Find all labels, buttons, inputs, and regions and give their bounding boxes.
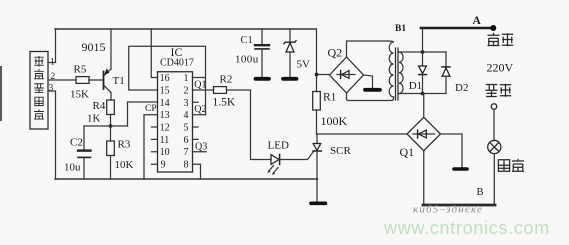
label C1 xyxy=(241,35,253,46)
wire: Q2 bottom to transformer primary bottom xyxy=(347,93,394,101)
label A xyxy=(473,15,482,27)
wire: Q1 bottom to B line xyxy=(423,151,425,205)
wire: zener drop from rail xyxy=(289,29,291,42)
svg-text:Q1: Q1 xyxy=(194,80,206,91)
wire: IR pin3 stub and drop to ground rail xyxy=(48,91,56,179)
label R2 xyxy=(220,74,233,86)
wire: secondary top rail to D2 xyxy=(399,51,446,53)
label B1 xyxy=(395,24,406,34)
wire: A line drop to secondary top xyxy=(422,28,424,52)
wire: top rail right end down (R1 branch) xyxy=(316,29,318,92)
wire: secondary bottom rail to D2 xyxy=(399,93,446,95)
node: R1 top / Q2 tap xyxy=(315,73,319,77)
svg-text:100u: 100u xyxy=(235,54,259,66)
wire: C2 to ground rail xyxy=(83,158,85,179)
IR receiver label char 头 xyxy=(35,110,44,119)
pin number 3 (IR box) xyxy=(49,84,54,94)
svg-text:100K: 100K xyxy=(321,114,348,128)
diode D2 xyxy=(442,52,450,94)
label R5 xyxy=(74,64,87,76)
svg-text:9: 9 xyxy=(161,160,166,171)
svg-text:B: B xyxy=(477,187,484,198)
wire: IC pin2 out to R2 xyxy=(193,89,214,91)
wire: R2 to LED drop xyxy=(227,90,272,160)
IR receiver label char 收 xyxy=(35,97,43,105)
wire: IR pin1 stub and riser to rail xyxy=(48,29,56,63)
IC pin numbers right column xyxy=(184,73,189,171)
label Q1 (bridge) xyxy=(400,145,415,159)
value 10K xyxy=(115,159,134,171)
svg-text:1.5K: 1.5K xyxy=(213,97,236,109)
node: A terminal dot xyxy=(490,25,496,31)
label 负载 load chars xyxy=(498,159,524,172)
label CD4017 xyxy=(160,58,194,69)
wire: LED to SCR gate xyxy=(280,152,314,160)
zener diode DW 5V xyxy=(284,41,296,78)
bridge rectifier Q1 xyxy=(407,117,441,151)
wire: IC pin4 to output bus xyxy=(193,114,206,116)
pin number 2 (IR box) xyxy=(51,72,56,82)
thyristor SCR xyxy=(313,134,321,179)
diode D1 xyxy=(419,52,427,94)
svg-text:7: 7 xyxy=(184,147,189,158)
wire: +V top rail xyxy=(55,28,316,30)
value 1K xyxy=(87,113,101,125)
svg-text:14: 14 xyxy=(160,98,170,109)
IC left pin stubs 12,11,10,9 xyxy=(152,127,158,164)
svg-text:12: 12 xyxy=(160,123,170,134)
svg-text:B1: B1 xyxy=(395,24,406,34)
svg-text:R3: R3 xyxy=(118,139,131,151)
svg-text:1: 1 xyxy=(184,73,189,84)
svg-text:5: 5 xyxy=(184,123,189,134)
value 5V xyxy=(297,59,311,71)
svg-text:1: 1 xyxy=(50,58,55,68)
label 9015 xyxy=(82,40,106,54)
IR receiver box 红外接收头 xyxy=(30,52,48,130)
svg-text:R2: R2 xyxy=(220,74,233,86)
label T1 xyxy=(113,75,125,87)
svg-text:R4: R4 xyxy=(93,100,106,112)
svg-text:Q2: Q2 xyxy=(328,46,343,60)
label B xyxy=(477,187,484,198)
label R3 xyxy=(118,139,131,151)
svg-text:D2: D2 xyxy=(455,82,468,94)
resistor R3 xyxy=(107,141,115,156)
wire: IC pin1 to output bus xyxy=(193,77,206,79)
svg-text:10u: 10u xyxy=(64,162,81,174)
label Q3 (IC output) xyxy=(195,142,207,153)
svg-text:4: 4 xyxy=(184,110,189,121)
resistor R4 xyxy=(107,100,115,115)
wire: T1 collector to R4 xyxy=(110,93,112,101)
transformer B1 secondary winding xyxy=(399,52,403,94)
ground bar at zener xyxy=(283,77,297,81)
wire: Q1 right vertex to ground xyxy=(441,134,463,167)
svg-text:LED: LED xyxy=(268,140,289,152)
svg-text:R1: R1 xyxy=(323,92,337,104)
svg-text:1K: 1K xyxy=(87,113,101,125)
svg-text:Q3: Q3 xyxy=(195,142,207,153)
LED D3 xyxy=(268,155,280,175)
wire: Q2 top to transformer primary top xyxy=(347,41,389,57)
svg-text:D1: D1 xyxy=(409,80,422,92)
svg-text:CD4017: CD4017 xyxy=(160,58,194,69)
wire: R5 to T1 base xyxy=(89,79,104,81)
wire: Q2 right vertex to ground xyxy=(364,75,373,88)
IC U1 CD4017 chip body xyxy=(158,72,193,172)
ground bar at C1 xyxy=(256,77,270,81)
label LED xyxy=(268,140,289,152)
label R4 xyxy=(93,100,106,112)
svg-text:11: 11 xyxy=(160,135,170,146)
green watermark www.cntronics.com xyxy=(383,218,550,238)
node: R4/R3/C2/CP junction xyxy=(109,124,113,128)
label D1 xyxy=(409,80,422,92)
resistor R1 xyxy=(313,92,321,111)
IR receiver label char 接 xyxy=(35,84,44,93)
IC right pin stubs 3,5,6,7 xyxy=(193,102,207,151)
svg-text:www.cntronics.com: www.cntronics.com xyxy=(383,218,550,238)
label C2 xyxy=(70,137,83,149)
label Q2 (IC output) xyxy=(194,104,206,115)
IC pin numbers left column xyxy=(160,73,170,171)
svg-text:2: 2 xyxy=(51,72,56,82)
wire: junction down-left to C2 xyxy=(83,126,85,149)
svg-text:10: 10 xyxy=(160,147,170,158)
value 1.5K xyxy=(213,97,236,109)
svg-text:16: 16 xyxy=(160,73,170,84)
wire: IR pin2 to R5 xyxy=(48,79,76,81)
lamp 负载 (load) xyxy=(488,140,501,153)
svg-text:Q2: Q2 xyxy=(194,104,206,115)
node: D1 bottom junction xyxy=(421,92,425,96)
svg-text:CP: CP xyxy=(145,104,157,114)
label 零线 neutral chars xyxy=(486,84,512,97)
svg-text:2: 2 xyxy=(184,86,189,97)
transformer B1 primary winding xyxy=(388,41,394,97)
value 100u xyxy=(235,54,259,66)
wire: T1 emitter to top rail xyxy=(110,29,112,69)
svg-text:R5: R5 xyxy=(74,64,87,76)
wire: bottom ground rail xyxy=(55,178,318,180)
label R1 xyxy=(323,92,337,104)
wire: neutral terminal to lamp xyxy=(493,109,495,140)
wire: lamp to B line xyxy=(493,154,495,205)
label SCR xyxy=(330,145,351,157)
svg-text:13: 13 xyxy=(160,110,170,121)
wire: IC pin13 drop to ground rail xyxy=(144,115,158,179)
wire: D bottom rail to Q1 bridge top xyxy=(423,94,425,118)
wire: CP clock line from junction to IC pin 14 xyxy=(128,102,158,126)
svg-text:SCR: SCR xyxy=(330,145,351,157)
capacitor C1 (100u) xyxy=(255,45,269,49)
terminal: neutral 零线 circle xyxy=(491,104,497,110)
svg-text:Q1: Q1 xyxy=(400,145,415,159)
value 15K xyxy=(70,89,89,101)
wire: junction to R3 xyxy=(110,126,112,141)
wire: R4 to junction xyxy=(110,115,112,127)
svg-text:15: 15 xyxy=(160,86,170,97)
label 火线 live-wire chars xyxy=(488,33,514,46)
svg-text:3: 3 xyxy=(184,98,189,109)
resistor R5 xyxy=(76,77,89,84)
pin number 1 (IR box) xyxy=(50,58,55,68)
wire: ground stub below rail at SCR xyxy=(316,179,318,202)
value 100K xyxy=(321,114,348,128)
wire: junction horizontal to C2 and CP riser xyxy=(84,125,128,127)
ground bar at Q2 xyxy=(365,88,380,92)
IR receiver label char 外 xyxy=(35,70,44,79)
svg-text:9015: 9015 xyxy=(82,40,106,54)
label Q2 (bridge) xyxy=(328,46,343,60)
gray watermark scribble xyxy=(413,204,483,216)
label IC xyxy=(171,45,183,59)
svg-text:C2: C2 xyxy=(70,137,83,149)
IR receiver label char 红 xyxy=(35,56,43,66)
svg-text:6: 6 xyxy=(184,135,189,146)
ground bar at Q1 xyxy=(454,167,467,171)
label D2 xyxy=(455,82,468,94)
wire: A live line (thick) xyxy=(421,27,494,30)
transformer B1 core xyxy=(396,48,399,100)
svg-text:C1: C1 xyxy=(241,35,253,46)
svg-text:A: A xyxy=(473,15,482,27)
svg-text:10K: 10K xyxy=(115,159,134,171)
svg-text:T1: T1 xyxy=(113,75,125,87)
value 10u xyxy=(64,162,81,174)
node: D1 top junction xyxy=(421,50,425,54)
label 220V xyxy=(487,61,514,75)
wire: SCR anode node to Q1 bridge xyxy=(317,133,408,135)
svg-text:киб5–зднєке: киб5–зднєке xyxy=(413,204,483,216)
wire: IC pin8 to ground rail xyxy=(193,164,201,179)
label Q1 (IC output) xyxy=(194,80,206,91)
left edge artifact line xyxy=(0,67,2,120)
label CP xyxy=(145,104,157,114)
svg-text:5V: 5V xyxy=(297,59,311,71)
capacitor C2 (10u) xyxy=(78,151,91,158)
svg-text:3: 3 xyxy=(49,84,54,94)
wire: Q2 bridge feed from R1 node xyxy=(317,74,330,76)
transistor T1 (9015 PNP) xyxy=(104,68,112,92)
wire: R3 to ground rail xyxy=(110,156,112,180)
ground bar below SCR xyxy=(311,202,326,206)
wire: C1 to ground xyxy=(261,50,263,77)
wire: top rail drop to IC pin 16 xyxy=(151,29,157,78)
capacitor C1 drop from rail xyxy=(261,29,263,44)
bridge rectifier Q2 xyxy=(330,57,364,93)
wire: IC pin15 reset loop around chip top xyxy=(129,46,206,114)
svg-text:15K: 15K xyxy=(70,89,89,101)
wire: B line (thick) xyxy=(423,204,495,207)
resistor R2 xyxy=(214,87,227,94)
wire: R1 to SCR anode node xyxy=(316,110,318,134)
svg-text:8: 8 xyxy=(184,160,189,171)
svg-text:220V: 220V xyxy=(487,61,514,75)
